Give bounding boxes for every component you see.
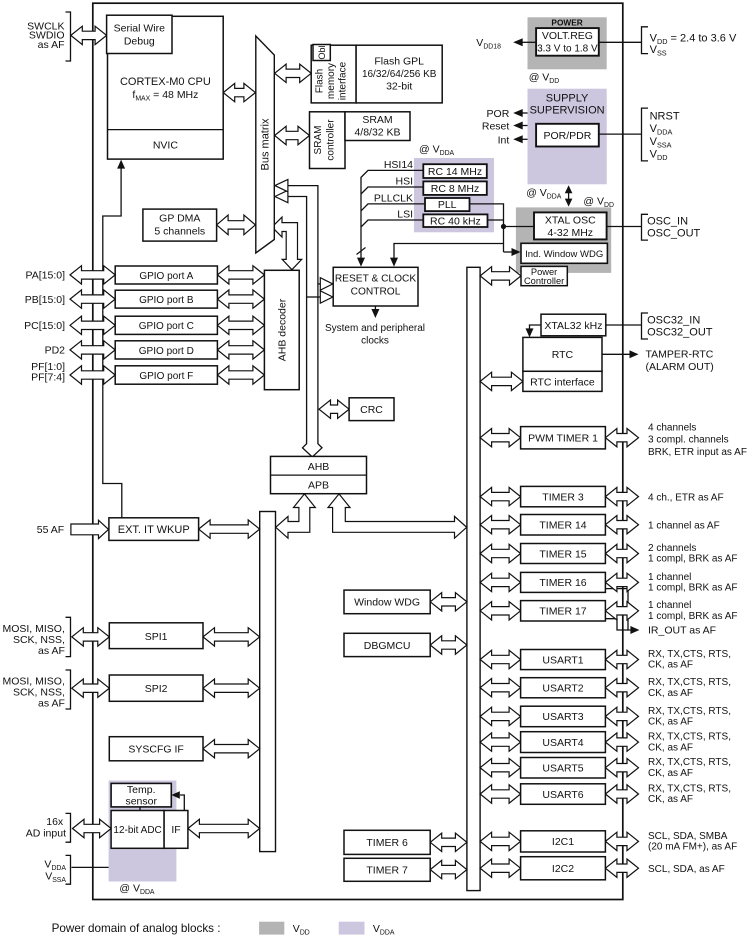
svg-text:EXT. IT WKUP: EXT. IT WKUP	[118, 524, 190, 536]
label I2C2 pins	[648, 864, 725, 875]
arrow TIMER 16 to pins	[605, 573, 638, 591]
label Ind Window WDG	[525, 249, 603, 260]
block XTAL OSC	[534, 212, 607, 239]
svg-text:1 compl, BRK as AF: 1 compl, BRK as AF	[648, 583, 737, 594]
label XTAL OSC	[545, 215, 596, 227]
arrowhead Reset	[513, 122, 523, 130]
wire HSI14 to clock control	[361, 170, 423, 251]
label I2C1	[552, 836, 574, 848]
arrow 55AF to EXT IT WKUP	[71, 520, 109, 538]
svg-text:as AF: as AF	[38, 39, 65, 51]
arrow CPU to bus matrix	[223, 83, 255, 101]
label PWM TIMER1 pins	[648, 422, 696, 433]
svg-text:RX, TX,CTS, RTS,: RX, TX,CTS, RTS,	[648, 706, 731, 717]
block GPIO port D	[115, 341, 217, 359]
label TIMER 17	[539, 606, 586, 618]
arrow TIMER 15 to pins	[605, 544, 638, 562]
block USART2	[521, 678, 606, 698]
wire bus matrix to AHB (left)	[285, 197, 306, 444]
svg-text:PD2: PD2	[45, 345, 66, 357]
arrow TIMER7 to bus bar	[430, 860, 467, 878]
svg-text:Serial Wire: Serial Wire	[114, 23, 166, 35]
bracket VDD VSS	[642, 27, 649, 54]
svg-text:NVIC: NVIC	[153, 140, 179, 152]
label VDD18	[476, 37, 501, 51]
block GPIO port F	[115, 366, 217, 384]
label SRAM	[362, 114, 392, 126]
svg-text:CONTROL: CONTROL	[351, 287, 401, 298]
arrowhead into Ind. Window WDG	[512, 248, 521, 256]
svg-text:VSSA​: VSSA​	[45, 870, 66, 884]
label Serial Wire Debug	[114, 23, 166, 35]
arrow SPI2 to pins	[72, 679, 110, 697]
block 12-bit ADC	[111, 811, 164, 849]
arrow GPIO D to AHB decoder	[217, 341, 264, 359]
svg-text:Bus matrix: Bus matrix	[260, 118, 272, 170]
open arrowhead at bus matrix (left)	[275, 190, 288, 202]
wire bus matrix to AHB (right)	[285, 186, 318, 444]
wire branch to RESET&CLOCK lower	[307, 296, 321, 298]
label CRC	[360, 404, 383, 416]
arrow Window WDG to bus bar	[430, 593, 467, 611]
label fmax 48MHz	[132, 89, 198, 103]
arrow USART4 to pins	[605, 733, 638, 751]
label TIMER 6	[366, 837, 408, 849]
block USART1	[521, 650, 606, 670]
divider AHB/APB	[271, 474, 367, 476]
block Power Controller	[521, 266, 567, 285]
label AHB	[308, 461, 330, 473]
block TIMER 6	[344, 830, 430, 854]
wire ADC IF to temp sensor	[180, 795, 184, 811]
svg-text:16x: 16x	[46, 816, 64, 828]
svg-text:RESET & CLOCK: RESET & CLOCK	[335, 274, 417, 285]
svg-text:Debug: Debug	[124, 36, 155, 48]
svg-text:APB: APB	[308, 480, 329, 492]
svg-text:SCL, SDA, SMBA: SCL, SDA, SMBA	[648, 831, 728, 842]
label HSI	[395, 176, 413, 188]
wire PLLCLK to clock control	[361, 204, 424, 211]
bracket VDDA VSSA	[66, 855, 71, 884]
APB peripheral bus bar right	[467, 267, 480, 890]
arrow elbow bus matrix to AHB decoder	[272, 217, 302, 270]
svg-text:TIMER 17: TIMER 17	[539, 606, 586, 618]
block TIMER 7	[344, 858, 430, 881]
svg-text:RTC interface: RTC interface	[530, 377, 595, 389]
arrow USART5 to pins	[605, 759, 638, 777]
label TIMER 3	[542, 491, 584, 503]
arrow bus bar to PWM TIMER 1	[480, 429, 520, 447]
arrow I2C1 to pins	[605, 832, 638, 850]
block SRAM	[345, 112, 410, 141]
label PF[1:0] PF[7:4]	[31, 361, 65, 373]
label SPI1 pins	[2, 623, 64, 635]
svg-text:PB[15:0]: PB[15:0]	[25, 294, 65, 306]
svg-text:GPIO port F: GPIO port F	[139, 371, 193, 382]
svg-text:RC 8 MHz: RC 8 MHz	[431, 183, 479, 195]
label VDDA VSSA	[44, 858, 66, 872]
label Reset	[482, 121, 510, 133]
block DBGMCU	[344, 633, 430, 656]
block RC 40 kHz	[423, 214, 487, 227]
svg-text:VDDA​: VDDA​	[373, 923, 395, 937]
arrow GPIO C to AHB decoder	[217, 316, 264, 334]
arrow bus bar to power controller	[480, 267, 521, 285]
label TIMER14 pins	[648, 521, 720, 532]
svg-text:TIMER 6: TIMER 6	[366, 837, 408, 849]
block USART6	[521, 784, 606, 805]
label RC 8 MHz	[431, 183, 479, 195]
legend label VDDA	[373, 923, 395, 937]
label I2C2	[552, 863, 574, 875]
label RTC	[552, 349, 574, 361]
svg-text:USART2: USART2	[542, 683, 583, 695]
block PWM TIMER 1	[521, 427, 606, 449]
block GP DMA	[143, 209, 217, 241]
block TIMER 15	[521, 544, 606, 564]
arrow USART1 to pins	[605, 650, 638, 668]
svg-text:Flash GPL: Flash GPL	[374, 56, 424, 68]
arrow PWM TIMER 1 to pins	[605, 429, 638, 447]
svg-text:TIMER 14: TIMER 14	[539, 520, 586, 532]
svg-text:BRK, ETR input as AF: BRK, ETR input as AF	[648, 447, 747, 458]
arrow bus bar to I2C2	[480, 859, 520, 877]
label bus matrix	[260, 118, 272, 170]
block RESET & CLOCK CONTROL	[333, 267, 418, 306]
label TIMER15 pins	[648, 543, 696, 554]
arrowhead TAMPER-RTC	[630, 350, 639, 358]
label TIMER17 pins	[648, 600, 691, 611]
svg-text:VDDA​: VDDA​	[650, 123, 673, 137]
switch slash on clock line	[357, 248, 366, 255]
arrow bus bar to TIMER 15	[480, 544, 520, 562]
label USART2 pins	[648, 677, 731, 688]
block SPI1	[109, 623, 203, 649]
label RTC interface	[530, 377, 595, 389]
arrow SPI2 to bus bar	[203, 679, 260, 697]
svg-text:1 channel: 1 channel	[648, 572, 691, 583]
svg-text:CK, as AF: CK, as AF	[648, 794, 693, 805]
svg-text:VSSA​: VSSA​	[650, 136, 672, 150]
label VDD = 2.4 to 3.6 V	[650, 33, 737, 47]
arrow bus matrix to flash interface	[275, 64, 312, 82]
bracket SWD pins	[66, 12, 71, 61]
svg-text:AHB: AHB	[308, 461, 330, 473]
block VOLT.REG	[536, 28, 599, 56]
svg-text:IR_OUT as AF: IR_OUT as AF	[648, 625, 716, 637]
svg-text:CK, as AF: CK, as AF	[648, 768, 693, 779]
wire branch to RESET&CLOCK upper	[318, 283, 321, 285]
legend swatch VDD (gray)	[259, 922, 284, 935]
arrow bus bar to USART2	[480, 679, 520, 697]
open arrowhead into AHB	[303, 440, 323, 458]
wire TIMER16 IR_OUT	[605, 589, 631, 630]
svg-text:Controller: Controller	[524, 276, 564, 286]
arrow SYSCFG to bus bar	[203, 740, 260, 758]
arrow bus bar to TIMER 3	[480, 487, 520, 505]
block EXT. IT WKUP	[109, 518, 199, 541]
wire to Ind. Window WDG	[504, 251, 514, 253]
label PC[15:0]	[24, 320, 65, 332]
label @VDD supply	[583, 196, 614, 210]
open arrowhead at bus matrix (right)	[275, 179, 288, 191]
label OSC32_OUT	[647, 327, 713, 339]
svg-text:CK, as AF: CK, as AF	[648, 688, 693, 699]
svg-text:TIMER 15: TIMER 15	[539, 548, 586, 560]
wire Reset output	[522, 125, 528, 127]
svg-text:memory: memory	[326, 63, 337, 99]
label RESET & CLOCK CONTROL	[335, 274, 417, 285]
svg-text:HSI: HSI	[395, 176, 413, 188]
arrow GPIO B to AHB decoder	[217, 290, 264, 308]
block RTC	[523, 337, 602, 371]
label Int	[498, 134, 510, 146]
svg-text:CORTEX-M0 CPU: CORTEX-M0 CPU	[120, 76, 211, 88]
block GPIO port B	[115, 290, 217, 308]
wire oscillator to RESET&CLOCK CONTROL	[394, 244, 504, 259]
label HSI14	[384, 159, 413, 171]
label USART6	[542, 789, 583, 801]
svg-text:RX, TX,CTS, RTS,: RX, TX,CTS, RTS,	[648, 677, 731, 688]
svg-text:interface: interface	[338, 61, 349, 100]
block Temp. sensor	[111, 783, 171, 807]
svg-text:1 compl, BRK as AF: 1 compl, BRK as AF	[648, 554, 737, 565]
label EXT. IT WKUP	[118, 524, 190, 536]
label USART3	[542, 711, 583, 723]
label OSC_IN	[647, 216, 688, 228]
svg-text:32-bit: 32-bit	[386, 81, 412, 93]
svg-text:GP DMA: GP DMA	[159, 213, 200, 225]
svg-text:RX, TX,CTS, RTS,: RX, TX,CTS, RTS,	[648, 732, 731, 743]
label USART1	[542, 654, 583, 666]
block SYSCFG IF	[109, 737, 203, 761]
arrow TIMER 14 to pins	[605, 516, 638, 534]
wire XTAL OSC to OSC pins	[607, 226, 642, 228]
label 12-bit ADC	[113, 825, 161, 836]
svg-text:SUPPLY: SUPPLY	[546, 93, 589, 105]
label SPI1	[145, 631, 168, 643]
svg-text:SRAM: SRAM	[313, 126, 324, 155]
label POR/PDR	[543, 130, 591, 142]
label PLL	[438, 199, 457, 211]
svg-text:Reset: Reset	[482, 121, 510, 133]
svg-text:3 compl. channels: 3 compl. channels	[648, 435, 729, 446]
block I2C1	[521, 831, 606, 852]
arrow PB port to pins	[70, 290, 115, 308]
block USART3	[521, 706, 606, 727]
svg-text:VDD​: VDD​	[650, 149, 668, 163]
arrowhead into NVIC	[117, 160, 125, 169]
svg-text:OSC32_OUT: OSC32_OUT	[647, 327, 713, 339]
svg-text:TIMER 7: TIMER 7	[366, 865, 408, 877]
block Ind. Window WDG	[521, 243, 607, 263]
arrow SPI1 to bus bar	[203, 628, 260, 646]
svg-text:DBGMCU: DBGMCU	[364, 640, 411, 652]
label USART6 pins	[648, 783, 731, 794]
label LSI	[397, 209, 413, 221]
wire LSI to clock control	[361, 220, 423, 227]
block TIMER 16	[521, 572, 606, 592]
arrow I2C2 to pins	[605, 859, 638, 877]
label APB	[308, 480, 329, 492]
divider NVIC	[108, 129, 224, 131]
svg-text:1 channel: 1 channel	[648, 600, 691, 611]
svg-text:PWM TIMER 1: PWM TIMER 1	[528, 433, 598, 445]
wire XTAL32 to RTC	[530, 325, 542, 331]
block bus matrix	[256, 36, 274, 253]
label USART3 pins	[648, 706, 731, 717]
svg-text:Int: Int	[498, 134, 510, 146]
label VDD pin	[650, 149, 668, 163]
svg-text:OSC_IN: OSC_IN	[647, 216, 688, 228]
bracket NRST VDDA VSSA VDD	[642, 108, 649, 161]
power domain background XTAL OSC (gray)	[516, 207, 611, 273]
svg-text:VDD18​: VDD18​	[476, 37, 501, 51]
svg-text:SYSCFG IF: SYSCFG IF	[128, 744, 183, 756]
block TIMER 3	[521, 486, 606, 506]
svg-text:OSC_OUT: OSC_OUT	[647, 228, 700, 240]
label GPIO port C	[139, 321, 194, 332]
svg-text:(ALARM OUT): (ALARM OUT)	[646, 361, 714, 373]
wire XTAL32 to OSC32 pins	[606, 324, 642, 326]
wire RTC to TAMPER	[602, 353, 630, 355]
arrow USART6 to pins	[605, 785, 638, 803]
svg-text:Flash: Flash	[315, 69, 326, 93]
arrow TIMER6 to bus bar	[430, 833, 467, 851]
svg-text:4-32 MHz: 4-32 MHz	[548, 227, 594, 239]
block Flash GPL	[356, 45, 442, 103]
label SWCLK SWDIO as AF	[27, 20, 64, 32]
arrow TIMER 3 to pins	[605, 487, 638, 505]
svg-text:@ VDDA​: @ VDDA​	[419, 144, 455, 158]
label VSSA pin	[650, 136, 672, 150]
arrow PF port to pins	[70, 366, 115, 384]
svg-text:XTAL OSC: XTAL OSC	[545, 215, 596, 227]
svg-text:sensor: sensor	[125, 796, 157, 808]
block GPIO port C	[115, 316, 217, 334]
svg-text:USART5: USART5	[542, 763, 583, 775]
svg-text:2 channels: 2 channels	[648, 543, 696, 554]
block AHB decoder	[264, 270, 299, 389]
label NRST	[650, 111, 680, 123]
svg-text:USART3: USART3	[542, 711, 583, 723]
label TIMER16 pins	[648, 572, 691, 583]
label USART4 pins	[648, 732, 731, 743]
block USART4	[521, 732, 606, 753]
svg-text:RX, TX,CTS, RTS,: RX, TX,CTS, RTS,	[648, 783, 731, 794]
block RC 8 MHz	[423, 181, 487, 195]
label Temp sensor	[127, 784, 156, 796]
arrow bus bar to USART5	[480, 759, 520, 777]
svg-text:VDD​ = 2.4 to 3.6 V: VDD​ = 2.4 to 3.6 V	[650, 33, 737, 47]
label SYSCFG IF	[128, 744, 183, 756]
junction node on oscillator line	[501, 224, 506, 229]
label I2C1 pins	[648, 831, 728, 842]
wire PLL output	[469, 204, 503, 252]
svg-text:GPIO port D: GPIO port D	[139, 346, 194, 357]
svg-text:TIMER 3: TIMER 3	[542, 491, 584, 503]
label USART5	[542, 763, 583, 775]
wire HSI to clock control	[361, 187, 423, 194]
label 55 AF	[37, 524, 64, 536]
block USART5	[521, 758, 606, 779]
label Flash memory interface	[315, 69, 326, 93]
arrow bus bar to TIMER 14	[480, 516, 520, 534]
svg-text:@ VDDA​: @ VDDA​	[526, 187, 562, 201]
svg-text:USART1: USART1	[542, 654, 583, 666]
label OSC_OUT	[647, 228, 700, 240]
wire TIMER17 IR_OUT	[605, 619, 628, 630]
arrow APB to right bus bar (elbow)	[328, 494, 467, 538]
label @VDDA adc	[119, 883, 155, 897]
svg-text:Obl: Obl	[317, 45, 327, 59]
label PB[15:0]	[25, 294, 65, 306]
label TAMPER-RTC	[646, 349, 714, 361]
arrow PD port to pins	[70, 341, 115, 359]
label Window WDG	[354, 597, 420, 609]
wire POR/PDR to NRST pins	[599, 133, 642, 135]
svg-text:Ind. Window WDG: Ind. Window WDG	[525, 249, 603, 260]
label VOLT.REG	[542, 30, 593, 42]
svg-text:HSI14: HSI14	[384, 159, 413, 171]
APB peripheral bus bar left	[260, 512, 276, 852]
label DBGMCU	[364, 640, 411, 652]
label Power Controller	[531, 267, 557, 277]
svg-text:CRC: CRC	[360, 404, 383, 416]
arrow PA port to pins	[70, 266, 115, 284]
wire RESET&CLOCK to system clocks	[374, 306, 376, 311]
block XTAL32 kHz	[541, 314, 606, 336]
label IF	[171, 824, 180, 836]
bracket OSC pins	[642, 214, 649, 240]
svg-text:@ VDDA​: @ VDDA​	[119, 883, 155, 897]
label SRAM controller	[313, 126, 324, 155]
svg-text:RTC: RTC	[552, 349, 574, 361]
svg-text:I2C2: I2C2	[552, 863, 574, 875]
svg-text:as AF: as AF	[38, 698, 65, 710]
label VDDA pin	[650, 123, 673, 137]
label GPIO port B	[139, 295, 194, 306]
arrow GPIO A to AHB decoder	[217, 266, 264, 284]
label CORTEX-M0 CPU	[120, 76, 211, 88]
svg-text:SPI2: SPI2	[145, 683, 168, 695]
svg-text:LSI: LSI	[397, 209, 413, 221]
arrow CRC to AHB bus	[319, 400, 349, 418]
wire Int output	[522, 138, 528, 140]
svg-text:RC 14 MHz: RC 14 MHz	[428, 166, 482, 178]
bracket OSC32 pins	[642, 313, 649, 339]
svg-text:GPIO port C: GPIO port C	[139, 321, 194, 332]
label 16x AD input	[46, 816, 64, 828]
block PLL	[425, 198, 470, 211]
svg-text:USART4: USART4	[542, 737, 583, 749]
label PWM TIMER 1	[528, 433, 598, 445]
bracket AD input	[66, 813, 71, 842]
svg-text:OSC32_IN: OSC32_IN	[647, 315, 700, 327]
svg-text:POR/PDR: POR/PDR	[543, 130, 591, 142]
label TIMER 16	[539, 577, 586, 589]
block Serial Wire Debug	[107, 15, 172, 53]
svg-text:4/8/32 KB: 4/8/32 KB	[354, 127, 400, 139]
svg-text:12-bit ADC: 12-bit ADC	[113, 825, 161, 836]
svg-text:16/32/64/256 KB: 16/32/64/256 KB	[362, 69, 437, 80]
svg-text:AHB decoder: AHB decoder	[277, 298, 289, 361]
wire temp sensor to ADC	[139, 807, 141, 811]
wire VOLT.REG to VDD pins	[599, 41, 642, 43]
svg-text:SCL, SDA, as AF: SCL, SDA, as AF	[648, 864, 725, 875]
svg-text:@ VDD​: @ VDD​	[583, 196, 614, 210]
arrowhead osc into RESET&CLOCK CONTROL	[390, 258, 398, 267]
